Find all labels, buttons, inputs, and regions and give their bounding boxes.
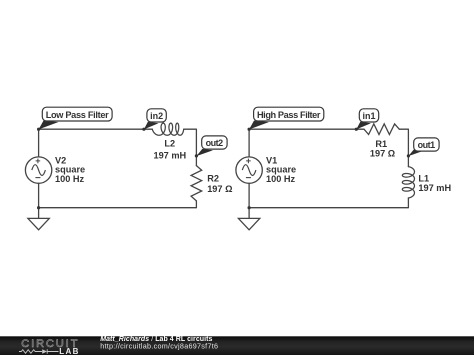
label flag: High Pass Filter <box>249 107 324 129</box>
value label L1 <box>418 174 451 193</box>
label flag: in1 <box>356 109 378 130</box>
wire: L2 right lead to corner and down to out2 node <box>184 129 197 165</box>
svg-text:197 Ω: 197 Ω <box>207 184 232 194</box>
wire: left circuit V2 bottom to ground junction <box>38 183 40 207</box>
value label R1 <box>370 139 395 159</box>
value label V1 <box>266 156 296 184</box>
footer logo diode <box>42 349 47 354</box>
wire: left circuit left vertical (node to V2 top) <box>38 129 40 157</box>
node dot: out2 <box>195 154 198 157</box>
node dot: in1 <box>355 128 358 131</box>
svg-text:197 Ω: 197 Ω <box>370 149 395 159</box>
footer bar <box>0 336 474 355</box>
wire: R1 right lead to corner and down to out1 node <box>399 129 408 166</box>
ground (left) <box>28 208 49 230</box>
wire: R2 bottom lead to bottom rail corner <box>39 201 197 208</box>
wire: right circuit V1 bottom to ground junction <box>248 183 250 207</box>
svg-text:197 mH: 197 mH <box>418 183 451 193</box>
node dot: out1 <box>407 154 410 157</box>
node dot: in2 <box>142 128 145 131</box>
wire: right circuit left vertical (node to V1 top) <box>248 129 250 157</box>
node dot: high pass filter node <box>248 128 251 131</box>
ground (right) <box>238 208 259 230</box>
svg-text:R2: R2 <box>207 174 219 184</box>
svg-text:100 Hz: 100 Hz <box>55 174 85 184</box>
wire: L1 bottom lead to bottom rail corner <box>249 198 408 208</box>
footer logo waveform: resistor zigzag <box>19 350 42 354</box>
svg-text:LAB: LAB <box>59 347 79 355</box>
node dot: low pass filter node <box>37 128 40 131</box>
svg-text:R1: R1 <box>375 139 387 149</box>
value label R2 <box>207 174 232 194</box>
svg-text:out2: out2 <box>206 138 224 148</box>
voltage source V2 <box>25 157 51 183</box>
label flag: out2 <box>196 136 227 156</box>
resistor R2 <box>191 166 202 201</box>
value label L2 <box>153 138 186 160</box>
label flag: out1 <box>408 138 439 156</box>
svg-text:197 mH: 197 mH <box>153 151 186 161</box>
inductor L2 <box>152 123 183 135</box>
resistor R1 <box>364 124 399 135</box>
inductor L1 <box>402 167 414 198</box>
wire: right circuit top rail node to in1 node and R1 <box>249 128 364 130</box>
svg-text:L2: L2 <box>164 138 175 148</box>
svg-text:in2: in2 <box>150 111 163 121</box>
svg-text:Low Pass Filter: Low Pass Filter <box>46 110 109 120</box>
svg-text:http://circuitlab.com/cvj8a697: http://circuitlab.com/cvj8a697sf7t6 <box>100 341 218 350</box>
voltage source V1 <box>236 157 262 183</box>
node dot: left ground junction <box>37 206 40 209</box>
wire: left circuit top rail node to in2 node and to L2 <box>39 128 153 130</box>
svg-text:in1: in1 <box>363 111 376 121</box>
svg-text:High Pass Filter: High Pass Filter <box>257 110 321 120</box>
value label V2 <box>55 156 85 184</box>
label flag: Low Pass Filter <box>39 107 113 129</box>
svg-text:out1: out1 <box>418 140 436 150</box>
label flag: in2 <box>144 109 166 130</box>
svg-text:100 Hz: 100 Hz <box>266 174 296 184</box>
node dot: right ground junction <box>248 206 251 209</box>
